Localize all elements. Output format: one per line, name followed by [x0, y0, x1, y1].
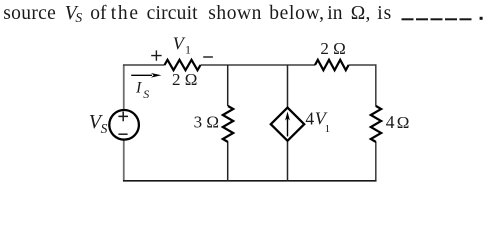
voltage source VS (circle) — [109, 110, 139, 140]
svg-text:4: 4 — [305, 109, 314, 129]
svg-text:S: S — [143, 87, 149, 101]
minus sign of V1 polarity — [203, 56, 213, 58]
svg-text:Ω: Ω — [397, 113, 410, 132]
resistor R1 2 ohm (top-left, horizontal) — [165, 60, 201, 70]
wire: middle branch (3 ohm) upper — [227, 65, 229, 106]
resistor R3 3 ohm (vertical) — [223, 106, 233, 142]
current arrow Is — [131, 74, 152, 76]
wire: middle branch (3 ohm) lower — [227, 142, 229, 182]
arrow inside dependent source — [287, 117, 289, 136]
svg-text:S: S — [101, 121, 108, 136]
svg-text:is: is — [377, 3, 392, 24]
plus sign of V1 polarity — [151, 50, 161, 60]
wire: right branch (4 ohm) lower — [375, 142, 377, 182]
blank answer line (5 dashes) — [402, 18, 472, 20]
plus sign inside source — [118, 112, 128, 122]
svg-text:3 Ω: 3 Ω — [194, 113, 219, 132]
wire: left branch below source — [123, 140, 125, 181]
svg-text:I: I — [135, 80, 142, 97]
svg-text:V: V — [173, 34, 186, 54]
svg-text:1: 1 — [325, 123, 331, 135]
period after blank — [480, 17, 483, 20]
svg-text:below,: below, — [269, 3, 324, 24]
wire: top rail left segment — [123, 64, 165, 66]
wire: top rail middle segment — [201, 64, 316, 66]
svg-text:2 Ω: 2 Ω — [172, 70, 197, 89]
svg-text:shown: shown — [208, 3, 262, 24]
svg-text:1: 1 — [185, 42, 191, 56]
wire: dependent-source branch upper — [287, 65, 289, 108]
svg-text:the: the — [111, 3, 140, 24]
svg-text:in: in — [327, 3, 343, 24]
problem statement text line — [3, 3, 392, 25]
wire: right branch upper — [375, 64, 377, 106]
svg-text:of: of — [90, 3, 107, 24]
wire: top rail right segment — [349, 64, 377, 66]
minus sign inside source — [118, 133, 127, 135]
wire: dependent-source branch lower — [287, 141, 289, 182]
wire: left branch above source — [123, 64, 125, 110]
svg-text:Ω,: Ω, — [351, 3, 371, 24]
resistor R2 2 ohm (top-right, horizontal) — [315, 60, 349, 70]
svg-text:2 Ω: 2 Ω — [320, 39, 345, 58]
dependent current source 4V1 (diamond) — [271, 108, 304, 141]
svg-text:4: 4 — [386, 112, 395, 132]
resistor R4 4 ohm (vertical) — [371, 106, 381, 142]
wire: bottom rail — [123, 180, 377, 182]
svg-text:circuit: circuit — [147, 3, 199, 24]
svg-text:source: source — [3, 3, 56, 24]
svg-text:S: S — [75, 10, 82, 25]
